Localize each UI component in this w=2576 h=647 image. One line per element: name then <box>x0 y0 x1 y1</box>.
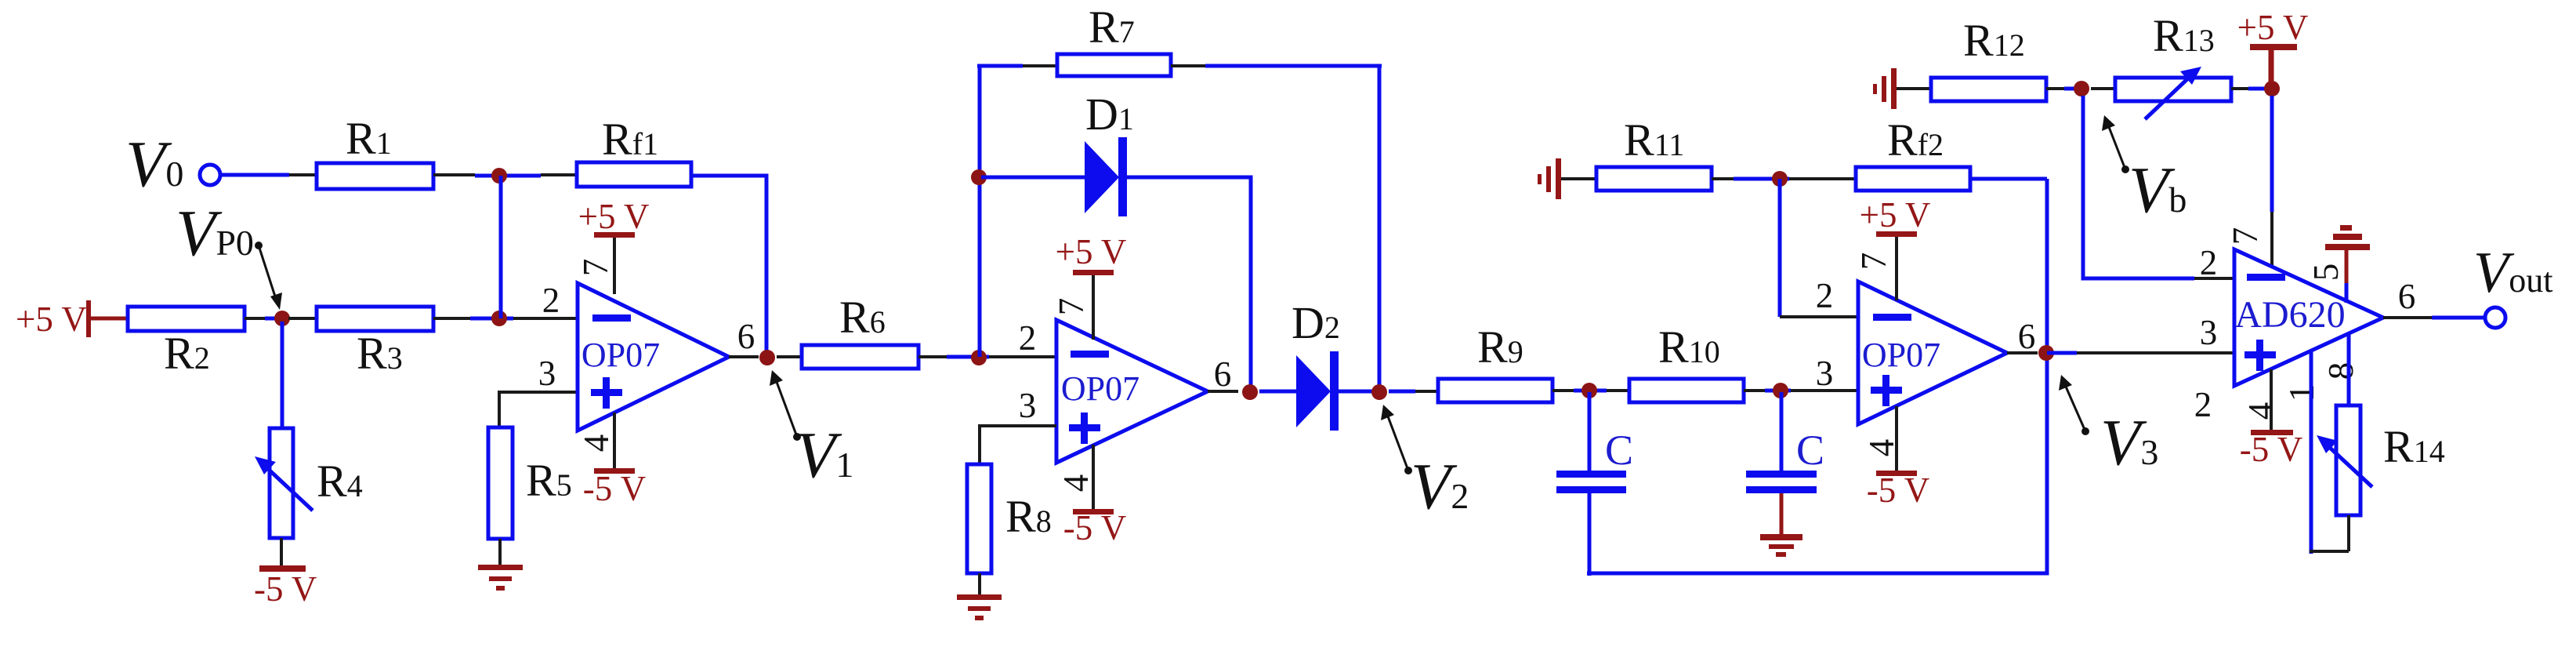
node V3 junction (U3 output) <box>2038 345 2054 361</box>
svg-text:6: 6 <box>2018 317 2036 356</box>
svg-text:+5 V: +5 V <box>578 197 650 236</box>
svg-text:V3: V3 <box>2100 406 2158 479</box>
STAGE2-END <box>1438 114 2234 576</box>
wire vertical R7 right column <box>1378 66 1382 392</box>
svg-text:6: 6 <box>2398 277 2416 316</box>
svg-text:-5 V: -5 V <box>254 569 317 609</box>
resistor Rf2 <box>1856 167 1970 191</box>
svg-text:2: 2 <box>2200 243 2218 282</box>
svg-text:R11: R11 <box>1624 114 1684 165</box>
wire junction to Rf2 <box>1789 177 1856 180</box>
wire U2 output <box>1208 390 1238 393</box>
wire C1 bottom feedback to U3 output <box>1587 179 2047 573</box>
svg-text:+5 V: +5 V <box>2237 8 2309 47</box>
leader arrow V2 <box>1404 467 1412 474</box>
svg-text:V2: V2 <box>1411 450 1469 523</box>
wire pin1 down <box>2310 352 2313 554</box>
svg-text:4: 4 <box>1056 474 1096 493</box>
svg-text:2: 2 <box>2194 385 2212 424</box>
wire R5 to ground <box>498 539 502 567</box>
ground left of R11 <box>1538 158 1561 199</box>
wire R3 to junction to op-amp pin2 <box>433 317 470 320</box>
ground left of R12 <box>1873 68 1897 109</box>
leader arrow VP0 <box>255 242 263 249</box>
svg-text:C: C <box>1796 427 1824 474</box>
node V2 junction <box>1371 384 1387 400</box>
potentiometer R14 <box>2336 405 2360 515</box>
svg-text:-5 V: -5 V <box>2240 430 2302 469</box>
in-amp U4 AD620 <box>2234 249 2383 386</box>
wire R12 to junction <box>2046 87 2064 90</box>
svg-text:3: 3 <box>1019 386 1037 425</box>
wire R8 to ground <box>978 573 981 596</box>
wire junction to R6 <box>777 355 802 358</box>
resistor R1 <box>317 163 433 189</box>
wire junction to R10 <box>1607 389 1629 392</box>
node V1 junction <box>759 350 775 365</box>
wire +5V junction down to AD620 pin7 <box>2270 96 2274 212</box>
wire R10 to junction <box>1744 389 1765 392</box>
power -5V below U1 <box>613 413 616 471</box>
wire VP0 down to R4 <box>281 322 284 428</box>
resistor R2 <box>128 307 245 331</box>
wire R14 bottom to pin1 <box>2347 515 2350 551</box>
svg-text:R14: R14 <box>2383 421 2445 472</box>
wire junction to U3 pin3 <box>1791 389 1858 392</box>
resistor Rf1 <box>577 162 691 187</box>
svg-text:R8: R8 <box>1005 491 1052 542</box>
svg-text:7: 7 <box>2226 227 2265 245</box>
svg-text:OP07: OP07 <box>582 336 660 374</box>
wire U1 output to junction <box>729 355 759 358</box>
junction D1 anode <box>971 169 987 185</box>
potentiometer R13 <box>2115 78 2231 101</box>
svg-text:7: 7 <box>1052 298 1091 316</box>
svg-text:R5: R5 <box>526 455 572 506</box>
svg-text:6: 6 <box>737 317 755 356</box>
svg-text:4: 4 <box>2241 402 2281 420</box>
svg-text:R3: R3 <box>357 328 403 379</box>
svg-text:-5 V: -5 V <box>1063 508 1126 547</box>
svg-text:4: 4 <box>577 434 616 453</box>
svg-text:+5 V: +5 V <box>1860 195 1931 234</box>
wire AD620 output <box>2383 316 2432 319</box>
leader arrow V3 <box>2081 427 2089 435</box>
svg-text:D1: D1 <box>1085 89 1134 140</box>
wire R4 to -5V <box>280 538 283 567</box>
wire junction to R13 <box>2091 87 2115 90</box>
wire to R7 <box>977 64 1023 68</box>
svg-text:R7: R7 <box>1089 2 1135 53</box>
svg-text:1: 1 <box>2282 384 2321 402</box>
svg-text:R6: R6 <box>839 292 886 343</box>
svg-text:2: 2 <box>542 281 560 320</box>
svg-text:2: 2 <box>1816 276 1834 315</box>
resistor R12 <box>1931 78 2046 101</box>
svg-text:-5 V: -5 V <box>1867 471 1929 510</box>
ground above pin5 <box>2325 225 2370 250</box>
wire V3 to AD620 pin3 <box>2047 351 2077 355</box>
resistor R10 <box>1629 379 1744 402</box>
junction U2 output <box>1242 384 1258 400</box>
svg-text:3: 3 <box>538 354 556 393</box>
wire junction to D1 <box>981 176 1085 180</box>
diode D1 <box>1085 141 1119 213</box>
junction node B <box>491 311 507 326</box>
svg-text:OP07: OP07 <box>1862 336 1940 374</box>
wire junction to D2 <box>1259 390 1296 394</box>
svg-text:2: 2 <box>1019 318 1037 358</box>
resistor R9 <box>1438 379 1552 402</box>
wire junction down to U3 pin2 <box>1778 179 1782 317</box>
svg-text:3: 3 <box>2200 313 2218 352</box>
resistor R6 <box>802 345 918 369</box>
svg-text:Vout: Vout <box>2473 241 2552 305</box>
svg-text:Rf1: Rf1 <box>602 114 658 165</box>
svg-text:7: 7 <box>1854 253 1893 271</box>
resistor R5 <box>488 427 513 539</box>
svg-text:VP0: VP0 <box>176 197 254 270</box>
svg-text:Rf2: Rf2 <box>1887 114 1944 165</box>
svg-text:C: C <box>1605 427 1633 474</box>
wire V2 to R9 <box>1389 390 1415 394</box>
junction R12/R13/Vb <box>2074 81 2089 96</box>
svg-text:R1: R1 <box>346 113 392 164</box>
junction R6 / U2 pin2 <box>971 350 987 365</box>
wire R6 to junction <box>918 355 947 358</box>
svg-text:3: 3 <box>1816 354 1834 393</box>
capacitor C2 <box>1780 392 1784 471</box>
op-amp U1 OP07 <box>578 283 729 431</box>
wire Rf2 to feedback column <box>1970 177 2047 181</box>
wire Vb junction down to AD620 pin2 <box>2083 96 2194 278</box>
wire R1 to junction to Rf1 <box>433 173 475 176</box>
wire ground to R11 <box>1561 177 1596 180</box>
svg-text:R12: R12 <box>1963 15 2025 66</box>
svg-text:V1: V1 <box>795 419 853 492</box>
svg-text:+5 V: +5 V <box>1056 232 1127 271</box>
junction R11/Rf2 <box>1772 171 1788 187</box>
power -5V below R4 <box>259 565 306 572</box>
potentiometer R4 <box>270 428 293 538</box>
terminal Vout <box>2485 307 2505 328</box>
terminal V0 <box>200 165 220 185</box>
junction node A <box>491 168 507 184</box>
svg-text:7: 7 <box>576 259 615 277</box>
resistor R7 <box>1057 54 1171 76</box>
capacitor C1 <box>1588 392 1592 471</box>
wire op-amp pin3 to R5 <box>499 392 578 427</box>
STAGE1-END <box>957 2 1469 620</box>
svg-text:R9: R9 <box>1477 322 1523 373</box>
leader arrow V1 <box>793 433 801 441</box>
svg-text:8: 8 <box>2321 362 2360 380</box>
svg-text:5: 5 <box>2306 264 2346 282</box>
op-amp U3 OP07 <box>1858 282 2007 424</box>
wire vertical feedback column x=1250 <box>978 66 982 357</box>
wire Rf1 to op-amp output <box>691 176 766 353</box>
wire ground to R12 <box>1897 87 1931 90</box>
svg-text:R4: R4 <box>317 456 363 507</box>
wire R11 to junction <box>1712 177 1734 180</box>
svg-text:OP07: OP07 <box>1061 369 1139 408</box>
ground below R8 <box>957 594 1002 620</box>
power -5V below U3 <box>1895 406 1898 471</box>
wire R9 to junction <box>1552 389 1574 392</box>
STAGE3-END <box>1873 8 2552 554</box>
svg-text:Vb: Vb <box>2129 154 2187 227</box>
wire U3 output to junction <box>2007 351 2038 354</box>
resistor R8 <box>967 464 991 573</box>
wire R7 to right column <box>1171 64 1205 67</box>
resistor R3 <box>317 307 433 331</box>
wire D2 to junction <box>1339 390 1375 394</box>
wire V0 to R1 <box>221 173 289 177</box>
svg-text:R10: R10 <box>1658 322 1720 373</box>
wire D1 cathode down to U2 output <box>1127 177 1251 391</box>
svg-text:R13: R13 <box>2153 10 2215 61</box>
wire vertical junction A to B <box>499 176 503 318</box>
leader arrow Vb <box>2121 165 2129 173</box>
wire U2 pin3 to R8 <box>980 426 1056 464</box>
ground below R5 <box>478 565 523 591</box>
junction R10/C2/pin3 <box>1773 383 1788 398</box>
wire R2 to VP0 <box>245 317 265 320</box>
power -5V below U2 <box>1092 445 1095 510</box>
node VP0 <box>274 311 290 326</box>
junction R9/R10/C <box>1581 383 1597 398</box>
svg-text:AD620: AD620 <box>2234 294 2345 336</box>
wire pin8 down to R14 <box>2347 334 2351 405</box>
wire VP0 to R3 <box>288 317 317 320</box>
diode D2 <box>1296 355 1331 427</box>
resistor R11 <box>1596 167 1712 191</box>
svg-text:D2: D2 <box>1292 297 1340 348</box>
ground below C2 <box>1760 534 1802 557</box>
op-amp U2 OP07 <box>1056 320 1208 463</box>
svg-text:6: 6 <box>1214 354 1232 394</box>
power -5V below AD620 pin4 <box>2270 369 2273 431</box>
svg-text:R2: R2 <box>164 328 210 379</box>
wire R13 to +5V junction <box>2231 87 2248 90</box>
junction R13/+5V <box>2264 81 2280 96</box>
svg-text:+5 V: +5 V <box>16 300 87 339</box>
svg-text:V0: V0 <box>125 128 183 201</box>
wire junction to U2 pin2 <box>989 355 1056 358</box>
svg-text:-5 V: -5 V <box>583 469 646 508</box>
